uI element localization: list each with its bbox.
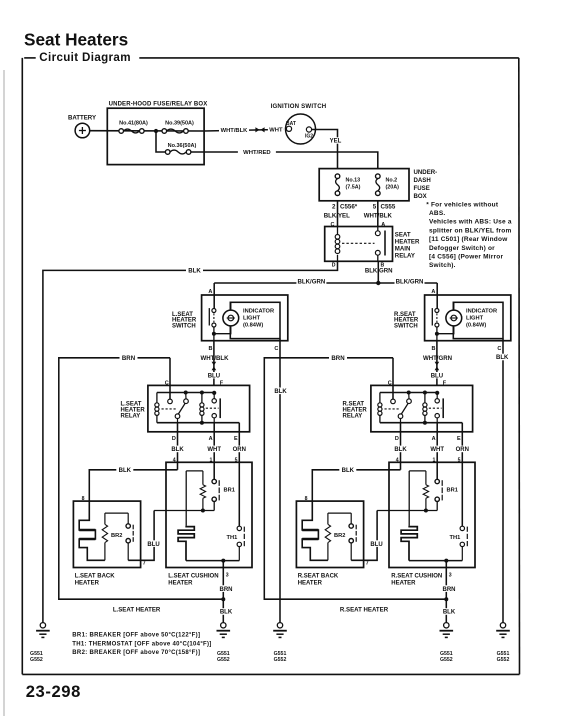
wire fuse No.2 to main relay WHT/BLK: [377, 201, 379, 227]
svg-text:IGNITION SWITCH: IGNITION SWITCH: [271, 103, 327, 110]
svg-text:HEATER: HEATER: [168, 581, 193, 587]
wire main relay D BLK to left ground: [43, 261, 338, 622]
main relay contact: [342, 227, 385, 262]
label R.SEAT HEATER SWITCH: [394, 312, 419, 330]
thermostat TH1: [227, 526, 245, 560]
svg-text:D: D: [332, 262, 336, 268]
ground G551/G552: [30, 623, 50, 664]
back heater element (serpentine): [79, 501, 105, 560]
label L.SEAT HEATER RELAY: [121, 402, 146, 420]
label BLK branch: [116, 467, 133, 474]
battery B1: [68, 115, 96, 138]
breaker BR2: [111, 513, 133, 560]
junction bottom line: [221, 597, 225, 601]
label BLK/GRN right: [395, 278, 425, 285]
indicator light box: [230, 302, 280, 338]
relay1 blade: [175, 393, 188, 423]
label WHT/BLK: [219, 126, 249, 133]
svg-text:R.SEAT BACK: R.SEAT BACK: [298, 574, 339, 580]
seat heater switch box: [202, 295, 288, 341]
label WHT: [268, 126, 284, 133]
svg-text:splitter on BLK/YEL from: splitter on BLK/YEL from: [429, 227, 511, 234]
svg-text:BLK: BLK: [119, 468, 132, 474]
svg-text:(20A): (20A): [386, 185, 400, 191]
label L.SEAT BACK HEATER: [75, 574, 116, 587]
svg-text:BLK/GRN: BLK/GRN: [298, 278, 326, 285]
label R.SEAT CUSHION HEATER: [391, 574, 442, 587]
pin labels 4 1 5: [173, 458, 238, 464]
BRN return right: [264, 358, 446, 599]
svg-text:D: D: [172, 436, 176, 442]
frame bracket: [22, 58, 519, 675]
connector on B wire: [212, 362, 217, 366]
svg-text:C: C: [165, 380, 169, 386]
svg-text:BRN: BRN: [122, 355, 135, 362]
svg-text:R.SEAT CUSHION: R.SEAT CUSHION: [391, 574, 442, 580]
svg-text:BLU: BLU: [208, 373, 220, 379]
back heater top rail: [105, 512, 128, 514]
wire pin7 BLU to cushion node: [128, 511, 154, 561]
svg-text:G552: G552: [30, 657, 43, 663]
svg-text:BRN: BRN: [331, 355, 344, 362]
svg-text:23-298: 23-298: [26, 682, 81, 701]
svg-text:No.39(50A): No.39(50A): [165, 121, 194, 127]
svg-text:TH1: THERMOSTAT [OFF above 40°: TH1: THERMOSTAT [OFF above 40°C(104°F)]: [72, 641, 211, 647]
ignition switch: [271, 103, 327, 144]
wire battery to ignition (WHT/BLK, WHT): [90, 129, 284, 131]
relay coil 2: [200, 393, 204, 423]
svg-text:G551: G551: [30, 651, 43, 657]
svg-text:Switch).: Switch).: [429, 262, 456, 269]
indicator lamp: [223, 302, 239, 326]
fuse No.41 (80A): [119, 121, 148, 134]
fuse No.13 (7.5A): [335, 174, 360, 196]
BRN return left: [59, 358, 224, 599]
label BLK on L switch C wire: [273, 388, 289, 395]
svg-text:WHT/GRN: WHT/GRN: [423, 355, 452, 362]
svg-text:ORN: ORN: [233, 447, 246, 453]
svg-text:(7.5A): (7.5A): [346, 185, 361, 191]
relay top rail: [157, 392, 214, 394]
wire BRN riser to relay C contact: [169, 358, 171, 399]
svg-text:SEAT: SEAT: [395, 232, 411, 239]
breaker BR1: [212, 479, 235, 510]
seat heater main relay: [325, 222, 420, 261]
svg-text:8: 8: [82, 496, 85, 502]
label BLK/GRN left: [296, 278, 326, 285]
wire inner-left vertical: [185, 471, 187, 526]
back heater resistor: [102, 513, 107, 560]
svg-text:L.SEAT HEATER: L.SEAT HEATER: [113, 606, 161, 613]
wire switch to B: [213, 327, 215, 341]
svg-text:RELAY: RELAY: [395, 253, 415, 260]
wire junction to lamp: [214, 326, 231, 334]
junction coil2 bottom: [200, 421, 204, 425]
wire WHT/RED from fuse No.36: [191, 152, 378, 169]
svg-text:BLK: BLK: [171, 447, 184, 453]
svg-text:BATTERY: BATTERY: [68, 115, 96, 122]
svg-text:L.SEAT BACK: L.SEAT BACK: [75, 574, 116, 580]
connector arrows: [255, 127, 259, 132]
svg-text:BR1: BREAKER [OFF above 50°C(1: BR1: BREAKER [OFF above 50°C(122°F)]: [72, 633, 200, 639]
svg-text:G551: G551: [274, 651, 287, 657]
label L.SEAT HEATER SWITCH: [172, 312, 197, 330]
svg-text:BRN: BRN: [220, 587, 233, 593]
right assembly (mirror): [296, 283, 510, 663]
label BLU: [206, 372, 222, 378]
svg-text:WHT/BLK: WHT/BLK: [364, 212, 393, 219]
component notes: [72, 633, 211, 657]
cushion node row (BLU): [154, 510, 214, 512]
svg-text:UNDER-HOOD FUSE/RELAY BOX: UNDER-HOOD FUSE/RELAY BOX: [109, 102, 208, 108]
svg-text:BLK/YEL: BLK/YEL: [324, 212, 350, 219]
svg-text:BR1: BR1: [224, 488, 235, 494]
connector 5 C555: [373, 204, 396, 211]
svg-text:SWITCH: SWITCH: [172, 323, 196, 329]
svg-text:A: A: [209, 436, 213, 442]
switch contact: [209, 308, 216, 327]
svg-text:R.SEAT HEATER: R.SEAT HEATER: [340, 606, 389, 613]
label WHT/RED: [238, 149, 276, 156]
ABS note: [426, 201, 512, 269]
svg-text:RELAY: RELAY: [343, 413, 363, 419]
svg-text:BLK: BLK: [496, 355, 509, 361]
label BLK: [218, 608, 235, 615]
svg-text:E: E: [234, 436, 238, 442]
wire pin4 branch BLK to back heater pin8: [89, 470, 177, 501]
svg-text:[11 C501] (Rear Window: [11 C501] (Rear Window: [429, 236, 508, 243]
svg-text:Circuit Diagram: Circuit Diagram: [39, 51, 131, 64]
relay1 fixed contact: [168, 399, 173, 404]
svg-text:5: 5: [373, 204, 377, 211]
svg-text:WHT/RED: WHT/RED: [243, 150, 271, 156]
svg-text:[4 C556] (Power Mirror: [4 C556] (Power Mirror: [429, 254, 503, 261]
wire main relay B to BLK/GRN bus: [377, 261, 379, 283]
label BLU: [146, 540, 162, 547]
label BLK: [169, 446, 186, 453]
svg-text:Defogger Switch) or: Defogger Switch) or: [429, 245, 495, 252]
label BRN right: [329, 355, 347, 362]
label R.SEAT BACK HEATER: [298, 574, 339, 587]
svg-text:A: A: [208, 289, 212, 295]
relay coil 1: [155, 393, 159, 423]
under-hood fuse/relay box: [107, 102, 207, 165]
labels D A E: [172, 436, 238, 442]
svg-text:DASH: DASH: [414, 177, 431, 184]
svg-text:WHT: WHT: [269, 128, 283, 134]
under-dash fuse box: [319, 169, 437, 201]
svg-text:C: C: [274, 346, 278, 352]
label YEL: [327, 137, 343, 143]
svg-text:UNDER-: UNDER-: [414, 169, 438, 176]
label BRN: [217, 585, 235, 592]
svg-text:SWITCH: SWITCH: [394, 323, 418, 329]
junction F entry: [212, 391, 216, 395]
svg-text:Seat Heaters: Seat Heaters: [24, 30, 128, 50]
svg-text:BOX: BOX: [414, 193, 428, 200]
svg-text:* For vehicles without: * For vehicles without: [426, 201, 499, 208]
svg-text:No.13: No.13: [346, 178, 361, 184]
wire IG2 YEL: [312, 130, 338, 169]
svg-text:BLK: BLK: [188, 268, 201, 275]
svg-text:3: 3: [226, 573, 229, 579]
seat cushion heater box: [166, 462, 252, 567]
svg-text:G552: G552: [217, 657, 230, 663]
svg-text:HEATER: HEATER: [395, 239, 420, 246]
seat back heater box: [73, 501, 140, 567]
label INDICATOR LIGHT (0.84W): [243, 309, 274, 329]
svg-text:ABS.: ABS.: [429, 210, 445, 217]
resistor cushion: [186, 471, 205, 511]
svg-text:(0.84W): (0.84W): [243, 323, 263, 329]
BLK/GRN bus: [214, 282, 437, 284]
svg-text:C556*: C556*: [340, 204, 358, 211]
main relay coil: [335, 227, 340, 262]
svg-text:FUSE: FUSE: [414, 185, 430, 192]
label L.SEAT CUSHION HEATER: [168, 574, 218, 587]
junction blade1: [184, 391, 188, 395]
svg-text:B: B: [209, 346, 213, 352]
label BLK: [186, 267, 203, 274]
wire junction to fuse No.36: [156, 131, 165, 152]
wire relay D BLK: [177, 423, 179, 470]
svg-text:WHT/BLK: WHT/BLK: [221, 128, 249, 134]
label R.SEAT HEATER RELAY: [343, 402, 368, 420]
seat heater relay box: [148, 385, 250, 431]
junction coil2 top: [200, 391, 204, 395]
junction pin3: [221, 559, 225, 563]
label ORN: [230, 446, 248, 453]
fuse No.39 (50A): [162, 121, 194, 134]
svg-text:7: 7: [143, 561, 146, 567]
svg-text:HEATER: HEATER: [75, 581, 100, 587]
svg-text:HEATER: HEATER: [391, 581, 416, 587]
page gutter shading: [3, 70, 5, 716]
junction B / bus: [376, 281, 380, 285]
svg-text:G551: G551: [217, 651, 230, 657]
connector 2 C556*: [332, 204, 358, 211]
fuse No.2 (20A): [376, 174, 400, 196]
wire relay E ORN: [238, 423, 240, 432]
svg-text:G552: G552: [274, 657, 287, 663]
svg-text:TH1: TH1: [227, 535, 238, 541]
junction switch/lamp: [212, 332, 216, 336]
wire switch C BLK to ground: [279, 339, 281, 623]
svg-text:WHT: WHT: [207, 447, 221, 453]
wire pin3 BRN/BLK to ground: [222, 561, 224, 623]
cushion bottom rail: [186, 560, 239, 562]
dashed armature link 1: [162, 408, 177, 410]
wire switch B to relay F: [213, 341, 215, 386]
svg-text:BLK: BLK: [220, 610, 233, 616]
svg-text:C555: C555: [381, 204, 396, 211]
svg-text:BLU: BLU: [147, 542, 159, 548]
label BLK on R switch C wire: [494, 354, 510, 361]
svg-text:BLK: BLK: [274, 389, 287, 395]
svg-text:BR2: BR2: [111, 533, 122, 539]
svg-text:No.2: No.2: [386, 178, 398, 184]
svg-text:Vehicles with ABS: Use a: Vehicles with ABS: Use a: [429, 219, 512, 226]
svg-text:HEATER: HEATER: [298, 581, 323, 587]
wire fuse No.13 to main relay BLK/YEL: [337, 201, 339, 227]
svg-text:2: 2: [332, 204, 336, 211]
junction node: [201, 509, 205, 513]
svg-text:BR2: BREAKER [OFF above 70°C(1: BR2: BREAKER [OFF above 70°C(158°F)]: [72, 650, 200, 656]
dashed armature link 2: [206, 407, 219, 409]
fuse No.36 (50A): [165, 143, 196, 155]
ground G551/G552: [217, 623, 231, 664]
svg-text:MAIN: MAIN: [395, 246, 411, 253]
svg-text:WHT/BLK: WHT/BLK: [200, 355, 229, 362]
relay2 contact: [212, 393, 220, 423]
relay bottom rail: [157, 422, 239, 424]
svg-text:BLK/GRN: BLK/GRN: [396, 278, 424, 285]
svg-text:No.36(50A): No.36(50A): [168, 143, 197, 149]
svg-text:No.41(80A): No.41(80A): [119, 121, 148, 127]
label WHT: [205, 446, 223, 453]
wire bus to switch A: [213, 283, 215, 308]
svg-text:INDICATOR: INDICATOR: [243, 309, 274, 315]
svg-text:RELAY: RELAY: [121, 413, 141, 419]
label BRN left: [120, 355, 138, 362]
svg-text:IG2: IG2: [305, 133, 313, 139]
ground G551/G552: [273, 623, 287, 664]
wire relay A WHT: [213, 423, 215, 480]
svg-text:L.SEAT CUSHION: L.SEAT CUSHION: [168, 574, 218, 580]
svg-text:LIGHT: LIGHT: [243, 316, 261, 322]
svg-text:YEL: YEL: [330, 139, 342, 145]
junction in fuse box: [154, 129, 158, 133]
cushion heater element (serpentine): [178, 526, 194, 561]
